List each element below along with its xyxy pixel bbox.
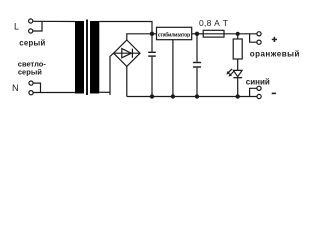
svg-text:оранжевый: оранжевый: [250, 50, 300, 59]
LED VD2: [233, 70, 242, 96]
wire secondary top rail: [99, 22, 152, 34]
svg-text:0,8 А Т: 0,8 А Т: [199, 18, 228, 28]
bridge rectifier VD1: [114, 40, 140, 66]
svg-text:стабилизатор: стабилизатор: [158, 31, 191, 38]
node X junction dot: [150, 32, 154, 36]
svg-text:серый: серый: [19, 38, 45, 47]
wire node X to regulator: [152, 33, 157, 35]
transformer T1 secondary winding: [90, 21, 99, 94]
terminal minus (output connector): [250, 86, 262, 98]
junction dot C1 bottom: [150, 94, 154, 98]
fuse FU1: [203, 30, 224, 37]
wire L to transformer primary top: [33, 20, 75, 22]
svg-text:серый: серый: [18, 67, 42, 76]
terminal plus (output connector): [250, 32, 262, 45]
regulator ground pin: [172, 40, 174, 97]
label plus: [272, 37, 277, 42]
svg-text:синий: синий: [246, 78, 270, 87]
negative rail wire: [127, 96, 257, 98]
wire regulator output: [192, 33, 204, 35]
junction dot C2 bottom: [195, 94, 199, 98]
transformer T1 primary winding: [75, 21, 84, 94]
voltage regulator U1 box: [157, 27, 192, 39]
junction dot LED bottom: [236, 94, 240, 98]
wire fuse to plus terminal: [224, 33, 257, 35]
transformer T1 core: [86, 20, 88, 96]
capacitor C1: [148, 34, 156, 97]
resistor R1: [233, 34, 242, 71]
wire bridge plus output to node X: [127, 34, 152, 40]
terminal N (input connector): [29, 81, 41, 95]
svg-text:N: N: [12, 83, 19, 93]
LED arrows: [226, 69, 234, 77]
wire bridge bottom to negative rail: [126, 66, 128, 96]
wire N to transformer primary bottom: [33, 92, 75, 94]
svg-text:L: L: [14, 21, 19, 31]
junction dot LED branch top: [236, 32, 240, 36]
capacitor C2: [193, 34, 201, 97]
terminal L (input connector): [29, 19, 42, 33]
junction dot regulator ground: [171, 94, 175, 98]
label minus: [272, 93, 276, 95]
wire secondary bottom: [99, 53, 113, 95]
junction dot regulator output: [195, 32, 199, 36]
